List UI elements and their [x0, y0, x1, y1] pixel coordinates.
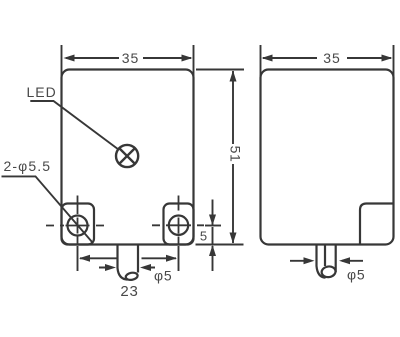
mounting lug left: [62, 204, 95, 245]
hole right: [169, 216, 188, 235]
cable end ellipse left view: [125, 272, 138, 281]
svg-text:φ5: φ5: [347, 267, 365, 283]
arrow 35 left view right: [182, 55, 193, 62]
arrow 23 right: [166, 255, 177, 262]
svg-text:23: 23: [120, 283, 138, 300]
svg-text:φ5: φ5: [154, 268, 172, 284]
arrow 35 right view right: [382, 55, 393, 62]
ext line 35 left view: left: [61, 45, 63, 77]
ext line 5 top (center ext): [205, 225, 221, 227]
dim line 35 right view: [263, 57, 391, 59]
arrow 51 top: [230, 71, 237, 82]
mounting lug right: [164, 204, 194, 245]
arrow phi5 left view left (points right): [105, 264, 116, 271]
svg-text:5: 5: [200, 229, 207, 244]
notch step right view: [360, 204, 394, 245]
dim line 23: [80, 257, 176, 259]
dim line phi5 right view: [290, 260, 363, 262]
ext line 35 left view: right: [193, 45, 195, 78]
svg-text:35: 35: [122, 50, 140, 66]
dim line 5: [212, 200, 214, 272]
centerline horizontal left lug: [46, 225, 104, 227]
svg-text:LED: LED: [27, 84, 57, 100]
svg-text:2-φ5.5: 2-φ5.5: [4, 158, 52, 174]
dim line 35 left view: [66, 57, 191, 59]
dim line 51: [232, 71, 234, 243]
LED circle: [116, 145, 138, 167]
centerline horizontal right lug: [152, 224, 204, 226]
hole left: [68, 216, 88, 236]
arrow 51 bottom: [230, 233, 237, 244]
cable end ellipse right view: [321, 266, 336, 278]
leader LED: [30, 101, 119, 150]
ext line 35 right view: left: [260, 45, 262, 78]
svg-text:51: 51: [228, 146, 244, 163]
arrow phi5 right view right (points left): [339, 257, 350, 264]
cable left view: [118, 246, 139, 280]
ext line 51 top: [196, 69, 244, 71]
svg-text:35: 35: [323, 50, 341, 66]
arrow 35 right view left: [262, 55, 273, 62]
ext line 23 left: [77, 246, 79, 271]
ext line 51 bottom / body bottom extension: [196, 244, 244, 246]
leader 2-phi5.5: [2, 176, 93, 242]
ext line 23 right: [178, 246, 180, 271]
arrow phi5 left view right (points left): [140, 264, 151, 271]
arrow phi5 right view left (points right): [304, 257, 315, 264]
arrow 23 left: [79, 255, 90, 262]
arrow 5 top (down): [209, 215, 216, 226]
arrow 5 bottom (up): [209, 245, 216, 256]
body right view: [261, 70, 394, 245]
ext line 35 right view: right: [393, 45, 395, 78]
centerline vertical hole right: [178, 196, 180, 244]
centerline vertical hole left: [77, 196, 79, 244]
cable right view: [317, 246, 336, 278]
centerlines: [46, 196, 204, 244]
body left view: [62, 70, 194, 245]
LED cross: [119, 148, 135, 164]
arrow 35 left view left: [64, 55, 75, 62]
dim line phi5 left view: [99, 267, 155, 269]
